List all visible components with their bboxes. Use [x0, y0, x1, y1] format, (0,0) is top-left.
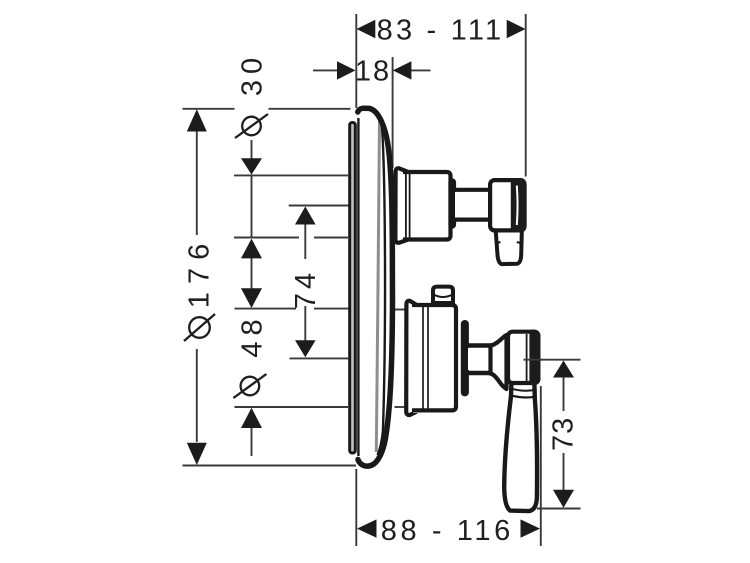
svg-text:73: 73 [548, 417, 580, 451]
svg-text:74: 74 [290, 269, 322, 309]
svg-text:30: 30 [237, 52, 269, 96]
svg-text:48: 48 [237, 313, 269, 357]
svg-text:88 - 116: 88 - 116 [381, 515, 514, 547]
svg-text:83 - 111: 83 - 111 [377, 15, 505, 47]
svg-text:18: 18 [355, 56, 391, 88]
svg-text:176: 176 [184, 236, 216, 308]
